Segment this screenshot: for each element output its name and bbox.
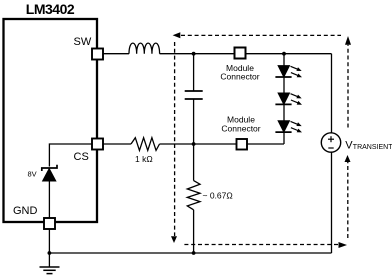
svg-text:CS: CS (74, 151, 89, 163)
wire CS net (CS pin to LED string bottom) (97, 143, 284, 145)
wire CS pin to zener (49, 144, 92, 167)
svg-text:SW: SW (74, 36, 92, 48)
svg-text:Connector: Connector (221, 124, 260, 134)
label ~0.67 Ohm (203, 190, 233, 200)
ground symbol (40, 253, 60, 274)
zener diode D1 cathode bar (42, 165, 57, 171)
module connector J1 (top) (235, 48, 246, 59)
node: sense resistor bottom on return net (192, 251, 196, 255)
svg-text:1 kΩ: 1 kΩ (135, 154, 153, 164)
current loop dashed left segment (174, 42, 176, 236)
resistor R2 bottom lead (193, 210, 195, 253)
pin GND (44, 218, 55, 229)
capacitor C1 bottom lead (193, 99, 195, 144)
inductor L1 (129, 43, 160, 54)
node: LED string tap on SW net (282, 52, 286, 56)
wire zener to GND pin (48, 181, 50, 218)
label 8V (28, 170, 37, 179)
label LM3402 (26, 1, 75, 17)
pin SW (92, 49, 103, 60)
wire LED string bottom elbow (283, 132, 285, 144)
svg-text:~ 0.67Ω: ~ 0.67Ω (203, 190, 233, 200)
IC U1 LM3402 box (4, 19, 98, 222)
module connector J2 (bottom) (237, 139, 248, 150)
current loop dashed bottom segment (183, 244, 338, 246)
LED D3 (275, 77, 302, 105)
svg-text:Connector: Connector (220, 72, 259, 82)
current loop dashed right lower segment (347, 162, 349, 238)
wire GND pin to ground net (48, 229, 50, 253)
current loop arrow right (bottom-right) (339, 242, 348, 248)
node: capacitor tap on SW net (192, 52, 196, 56)
label Module Connector (bottom) (221, 115, 260, 134)
node: sense node on CS net (192, 142, 196, 146)
pin CS (92, 139, 103, 150)
current loop arrow left (top-left) (173, 32, 181, 38)
capacitor C1 plates (185, 91, 203, 99)
svg-text:8V: 8V (28, 170, 37, 179)
svg-text:LM3402: LM3402 (26, 1, 75, 17)
wire top net down to source (331, 54, 333, 133)
label CS (74, 151, 89, 163)
resistor R1 1 kOhm (131, 138, 160, 151)
label GND (13, 205, 38, 217)
resistor R2 0.67 Ohm body (187, 181, 200, 210)
label VTRANSIENT (345, 140, 392, 152)
wire bottom return net (49, 252, 331, 254)
current loop arrow up (below VTRANSIENT) (345, 155, 351, 162)
node: ground tap at GND pin (48, 251, 52, 255)
label Module Connector (top) (220, 63, 259, 82)
label 1 kOhm (135, 154, 153, 164)
current loop arrow up (top-right) (345, 36, 351, 45)
LED D4 (275, 104, 302, 132)
current loop arrow down (bottom-left) (171, 236, 177, 243)
source V1 circle (321, 133, 340, 152)
svg-text:GND: GND (13, 205, 38, 217)
current loop dashed top segment (181, 34, 341, 36)
wire SW pin to inductor (97, 53, 129, 55)
zener diode D1 body (43, 169, 56, 181)
current loop dashed right upper segment (347, 45, 349, 128)
svg-text:TRANSIENT: TRANSIENT (353, 144, 392, 151)
LED D2 (275, 54, 302, 78)
capacitor C1 top lead (193, 54, 195, 91)
resistor R2 0.67 Ohm top lead (193, 144, 195, 181)
label SW (74, 36, 92, 48)
wire inductor to V-source branch (top net) (160, 53, 332, 55)
wire source to return net (331, 152, 333, 253)
